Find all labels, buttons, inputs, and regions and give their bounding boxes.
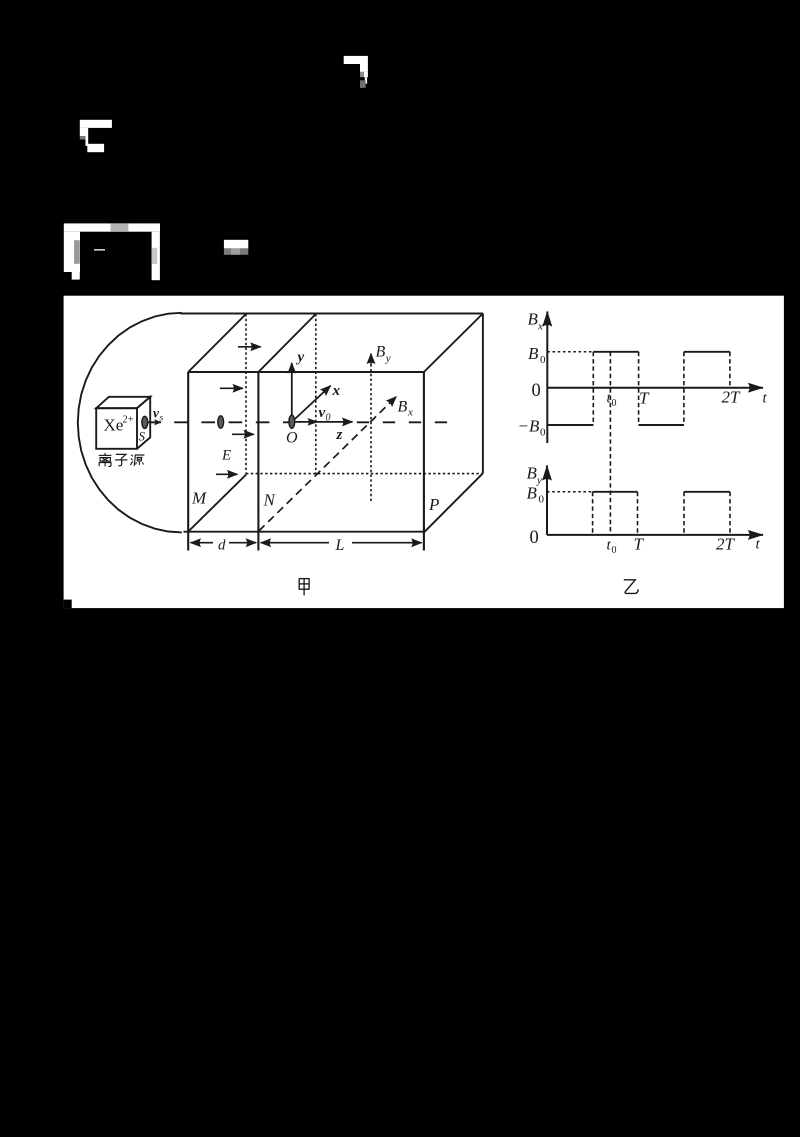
svg-text:d: d: [218, 538, 226, 554]
svg-text:B: B: [528, 310, 539, 329]
svg-text:2T: 2T: [722, 388, 742, 407]
svg-text:z: z: [336, 427, 343, 443]
svg-text:x: x: [407, 407, 413, 419]
svg-text:L: L: [335, 537, 345, 554]
svg-text:2+: 2+: [123, 415, 134, 426]
svg-text:0: 0: [326, 413, 331, 424]
svg-text:y: y: [385, 353, 391, 365]
svg-text:x: x: [537, 321, 543, 333]
svg-text:T: T: [639, 389, 650, 408]
svg-text:B: B: [528, 344, 539, 363]
svg-text:B: B: [376, 344, 386, 361]
svg-text:v: v: [319, 405, 326, 421]
svg-text:0: 0: [540, 354, 546, 366]
svg-text:2T: 2T: [716, 535, 736, 554]
svg-text:y: y: [536, 475, 542, 487]
svg-text:N: N: [263, 491, 277, 510]
svg-text:0: 0: [612, 398, 617, 409]
svg-text:E: E: [221, 448, 231, 464]
svg-text:B: B: [398, 399, 408, 416]
svg-text:0: 0: [539, 494, 545, 506]
svg-text:0: 0: [530, 528, 539, 548]
svg-text:S: S: [139, 429, 146, 444]
svg-text:0: 0: [540, 427, 546, 439]
svg-text:−B: −B: [518, 417, 540, 436]
svg-text:B: B: [527, 484, 538, 503]
svg-text:0: 0: [532, 381, 541, 401]
svg-text:x: x: [332, 383, 341, 399]
svg-text:0: 0: [612, 545, 617, 556]
svg-text:M: M: [191, 489, 207, 508]
svg-text:O: O: [286, 430, 298, 447]
svg-text:Xe: Xe: [104, 416, 124, 435]
svg-text:B: B: [527, 464, 538, 483]
svg-text:y: y: [296, 350, 305, 366]
svg-text:P: P: [428, 495, 439, 514]
svg-text:T: T: [634, 535, 645, 554]
svg-text:s: s: [160, 414, 164, 424]
